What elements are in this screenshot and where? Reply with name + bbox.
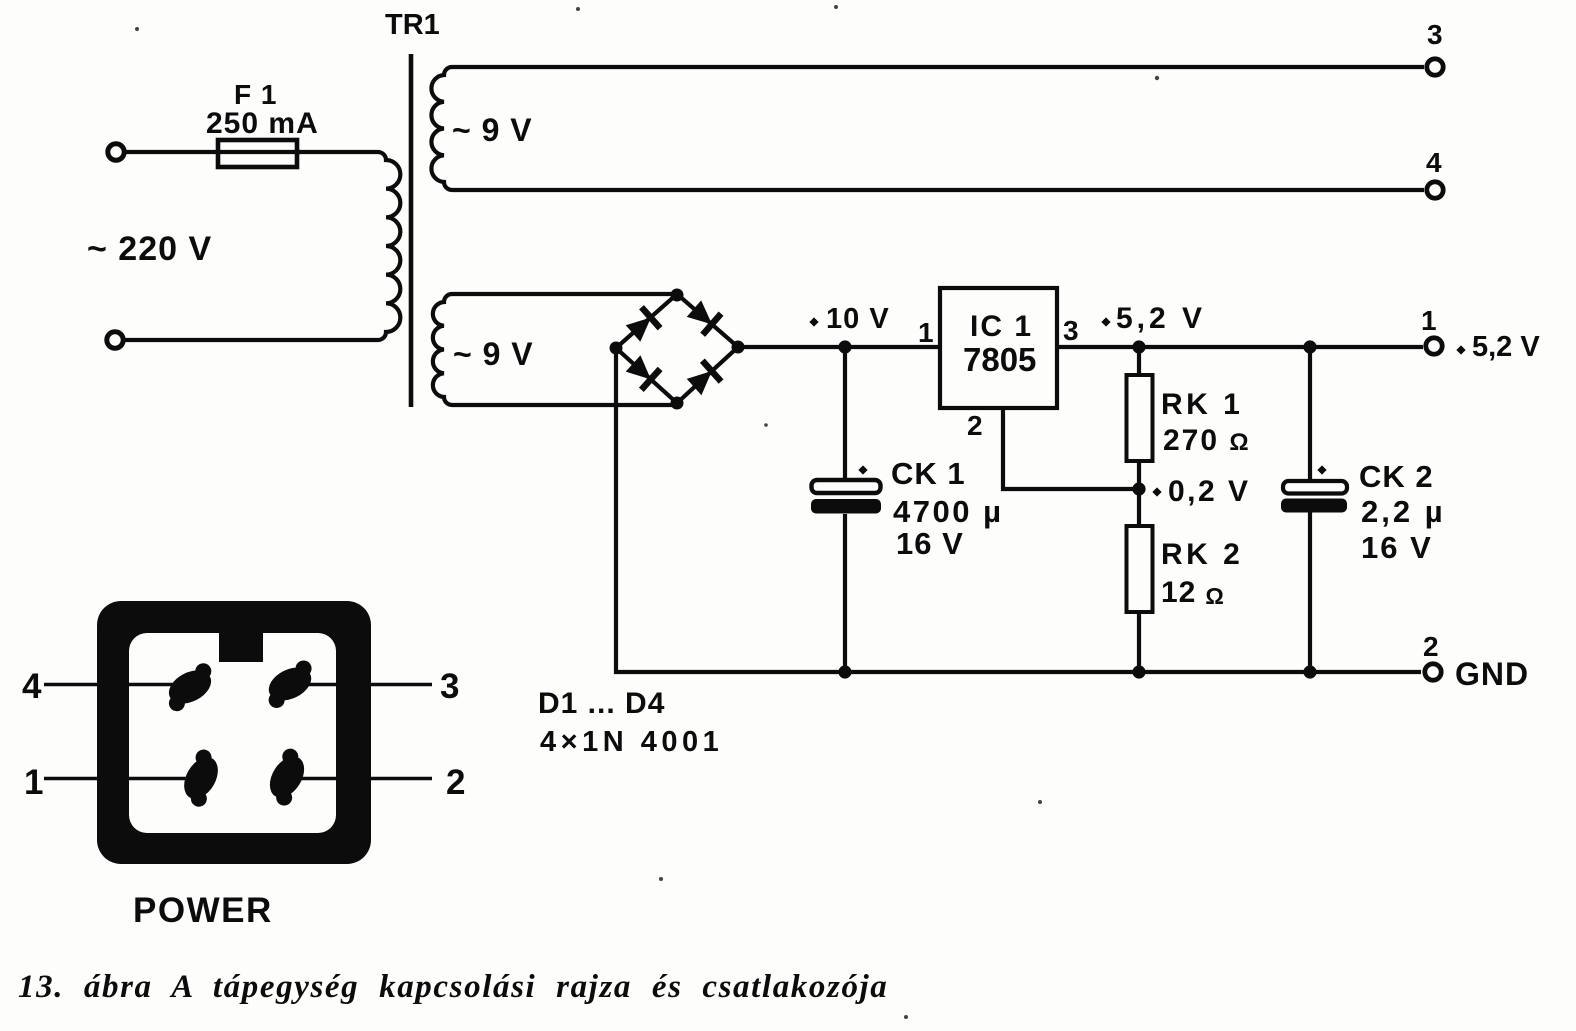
svg-text:250 mA: 250 mA [206, 107, 319, 140]
svg-text:~ 220 V: ~ 220 V [87, 230, 212, 268]
svg-text:4: 4 [1426, 147, 1442, 178]
svg-text:IC 1: IC 1 [970, 310, 1033, 343]
svg-text:10 V: 10 V [826, 303, 890, 335]
svg-text:1: 1 [918, 317, 934, 348]
svg-text:1: 1 [24, 763, 43, 802]
svg-text:16 V: 16 V [896, 526, 964, 561]
svg-text:1: 1 [1421, 305, 1437, 336]
svg-text:16 V: 16 V [1361, 530, 1433, 565]
svg-text:4700 µ: 4700 µ [893, 494, 1003, 529]
svg-text:3: 3 [440, 667, 459, 706]
svg-text:TR1: TR1 [385, 9, 440, 41]
svg-text:7805: 7805 [963, 341, 1036, 378]
svg-text:3: 3 [1063, 315, 1079, 346]
svg-text:RK 2: RK 2 [1161, 538, 1243, 571]
svg-text:2,2 µ: 2,2 µ [1361, 494, 1446, 529]
svg-text:RK 1: RK 1 [1161, 388, 1243, 421]
svg-text:0,2 V: 0,2 V [1168, 475, 1251, 508]
svg-text:GND: GND [1455, 656, 1529, 692]
svg-text:5,2 V: 5,2 V [1116, 302, 1206, 335]
svg-text:13. ábra A tápegység kapcsolás: 13. ábra A tápegység kapcsolási rajza és… [18, 969, 888, 1005]
svg-text:5,2 V: 5,2 V [1472, 331, 1540, 363]
svg-text:2: 2 [967, 410, 983, 441]
svg-text:2: 2 [1423, 631, 1439, 662]
svg-text:F 1: F 1 [234, 79, 277, 110]
svg-text:CK 2: CK 2 [1359, 459, 1434, 494]
svg-text:~ 9 V: ~ 9 V [452, 112, 533, 148]
svg-text:4: 4 [22, 667, 42, 706]
svg-text:4×1N 4001: 4×1N 4001 [540, 726, 723, 758]
svg-text:270 Ω: 270 Ω [1163, 424, 1251, 457]
svg-text:2: 2 [446, 763, 465, 802]
svg-text:~ 9 V: ~ 9 V [453, 336, 534, 372]
svg-text:3: 3 [1427, 19, 1443, 50]
svg-text:POWER: POWER [133, 891, 273, 930]
svg-text:CK 1: CK 1 [891, 456, 966, 491]
svg-text:D1 ... D4: D1 ... D4 [538, 687, 665, 720]
